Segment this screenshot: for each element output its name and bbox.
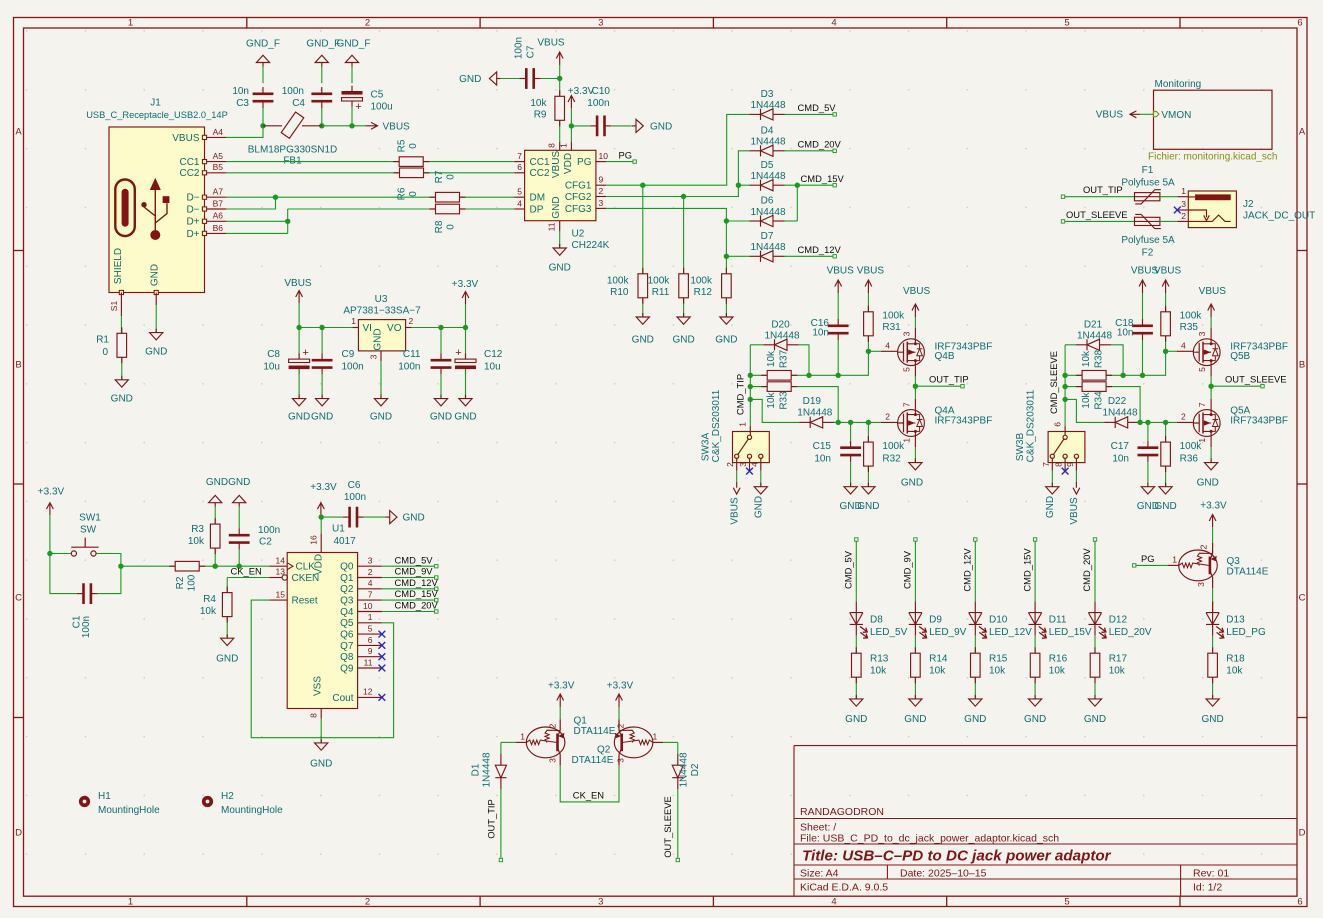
svg-text:6: 6 [517, 162, 522, 172]
svg-text:VBUS: VBUS [284, 278, 312, 289]
svg-text:A: A [1299, 127, 1306, 138]
svg-text:R38: R38 [1094, 349, 1105, 368]
svg-text:VBUS: VBUS [537, 38, 565, 49]
svg-text:R18: R18 [1226, 654, 1245, 665]
svg-text:PG: PG [619, 150, 633, 161]
svg-text:Q3: Q3 [340, 596, 354, 607]
svg-text:R1: R1 [96, 335, 109, 346]
svg-text:Cout: Cout [332, 693, 353, 704]
svg-text:CMD_15V: CMD_15V [1021, 548, 1032, 592]
svg-text:Q4: Q4 [340, 607, 354, 618]
svg-text:6: 6 [1053, 422, 1063, 427]
svg-text:D5: D5 [761, 160, 774, 171]
svg-text:CMD_SLEEVE: CMD_SLEEVE [1048, 351, 1059, 414]
svg-text:A4: A4 [213, 127, 224, 137]
svg-text:VBUS: VBUS [730, 497, 741, 525]
svg-text:1: 1 [1172, 555, 1177, 565]
svg-text:1: 1 [559, 143, 569, 148]
svg-text:8: 8 [308, 713, 318, 718]
svg-text:GND: GND [551, 196, 562, 218]
svg-text:+3.3V: +3.3V [568, 86, 595, 97]
svg-text:1N4448: 1N4448 [1077, 331, 1112, 342]
svg-text:GND: GND [1045, 496, 1056, 518]
svg-text:GND: GND [901, 478, 923, 489]
svg-text:C8: C8 [267, 349, 280, 360]
svg-text:5: 5 [1064, 18, 1069, 29]
svg-text:VDD: VDD [314, 554, 325, 575]
svg-text:D−: D− [186, 204, 199, 215]
svg-text:B5: B5 [213, 162, 224, 172]
svg-text:100k: 100k [1180, 311, 1203, 322]
svg-text:R10: R10 [610, 287, 629, 298]
svg-text:VMON: VMON [1161, 110, 1191, 121]
svg-text:Q7: Q7 [340, 641, 354, 652]
svg-text:LED_5V: LED_5V [870, 627, 908, 638]
svg-text:16: 16 [308, 535, 318, 545]
svg-text:7: 7 [902, 402, 912, 407]
svg-text:Q2: Q2 [597, 745, 611, 756]
svg-text:CMD_20V: CMD_20V [395, 600, 439, 611]
svg-text:2: 2 [725, 462, 735, 467]
svg-text:D+: D+ [186, 217, 199, 228]
svg-text:VO: VO [387, 323, 402, 334]
svg-text:DM: DM [530, 193, 546, 204]
svg-text:2: 2 [365, 896, 370, 907]
svg-text:0: 0 [446, 224, 457, 230]
svg-text:15: 15 [276, 589, 286, 599]
svg-text:B: B [15, 360, 21, 371]
svg-text:3: 3 [738, 462, 748, 467]
svg-text:AP7381−33SA−7: AP7381−33SA−7 [343, 306, 421, 317]
svg-text:LED_15V: LED_15V [1049, 627, 1092, 638]
svg-text:D4: D4 [761, 126, 774, 137]
svg-text:VDD: VDD [563, 153, 574, 174]
svg-text:4017: 4017 [334, 536, 357, 547]
svg-text:Monitoring: Monitoring [1155, 79, 1202, 90]
svg-text:+3.3V: +3.3V [1200, 501, 1227, 512]
svg-text:F2: F2 [1142, 248, 1154, 259]
svg-text:Reset: Reset [292, 596, 318, 607]
svg-text:GND: GND [650, 121, 672, 132]
svg-text:JACK_DC_OUT: JACK_DC_OUT [1243, 211, 1315, 222]
svg-text:OUT_SLEEVE: OUT_SLEEVE [1066, 209, 1127, 220]
svg-text:GND_F: GND_F [337, 39, 371, 50]
svg-text:1: 1 [1197, 438, 1207, 443]
svg-text:Q5B: Q5B [1230, 351, 1250, 362]
svg-text:FB1: FB1 [283, 156, 302, 167]
svg-text:A7: A7 [213, 187, 224, 197]
svg-text:R12: R12 [694, 287, 713, 298]
svg-text:10k: 10k [870, 666, 887, 677]
svg-text:GND: GND [1084, 714, 1106, 725]
svg-text:U2: U2 [572, 229, 585, 240]
svg-text:3: 3 [902, 331, 912, 336]
svg-text:GND: GND [672, 335, 694, 346]
svg-text:1: 1 [738, 422, 748, 427]
svg-text:VSS: VSS [313, 676, 324, 696]
svg-text:GND: GND [1154, 501, 1176, 512]
svg-text:SW1: SW1 [79, 513, 101, 524]
svg-text:1N4448: 1N4448 [679, 752, 690, 787]
svg-text:10k: 10k [200, 606, 217, 617]
svg-text:1: 1 [1181, 186, 1186, 196]
svg-text:GND: GND [632, 335, 654, 346]
svg-text:VI: VI [363, 323, 372, 334]
svg-text:GND: GND [1024, 714, 1046, 725]
svg-text:10: 10 [363, 601, 373, 611]
svg-text:0: 0 [408, 143, 419, 149]
svg-text:GND: GND [370, 412, 392, 423]
svg-text:0: 0 [102, 347, 108, 358]
svg-text:6: 6 [368, 635, 373, 645]
svg-text:VBUS: VBUS [1199, 286, 1227, 297]
svg-text:File: USB_C_PD_to_dc_jack_powe: File: USB_C_PD_to_dc_jack_power_adaptor.… [800, 833, 1059, 845]
svg-text:CFG1: CFG1 [565, 181, 592, 192]
svg-text:R5: R5 [396, 139, 407, 152]
svg-text:PG: PG [1141, 553, 1155, 564]
svg-text:10n: 10n [1117, 328, 1134, 339]
svg-text:R35: R35 [1180, 322, 1199, 333]
svg-text:B: B [1299, 360, 1305, 371]
svg-text:Polyfuse 5A: Polyfuse 5A [1121, 177, 1175, 188]
svg-text:4: 4 [749, 462, 759, 467]
svg-text:B6: B6 [213, 223, 224, 233]
svg-text:R3: R3 [191, 524, 204, 535]
svg-text:6: 6 [1297, 18, 1302, 29]
svg-text:R37: R37 [778, 349, 789, 368]
svg-text:1N4448: 1N4448 [482, 752, 493, 787]
svg-text:10n: 10n [232, 86, 249, 97]
svg-text:GND: GND [373, 328, 384, 350]
svg-text:R31: R31 [882, 322, 901, 333]
svg-text:GND: GND [549, 263, 571, 274]
svg-text:R16: R16 [1049, 654, 1068, 665]
svg-text:3: 3 [599, 198, 604, 208]
svg-text:OUT_SLEEVE: OUT_SLEEVE [1225, 374, 1286, 385]
svg-text:Title: USB–C–PD to DC jack pow: Title: USB–C–PD to DC jack power adaptor [802, 848, 1112, 865]
svg-text:CMD_15V: CMD_15V [801, 173, 845, 184]
svg-text:VBUS: VBUS [172, 133, 200, 144]
svg-text:4: 4 [831, 896, 836, 907]
svg-text:+3.3V: +3.3V [607, 681, 634, 692]
svg-text:OUT_TIP: OUT_TIP [929, 374, 969, 385]
svg-text:C4: C4 [292, 98, 305, 109]
svg-text:CMD_9V: CMD_9V [395, 566, 434, 577]
svg-text:IRF7343PBF: IRF7343PBF [935, 416, 993, 427]
svg-text:H2: H2 [221, 791, 234, 802]
svg-text:C12: C12 [484, 349, 503, 360]
svg-text:Rev: 01: Rev: 01 [1193, 868, 1229, 880]
svg-text:100n: 100n [513, 37, 524, 59]
svg-text:3: 3 [1181, 199, 1186, 209]
svg-text:CFG2: CFG2 [565, 192, 592, 203]
svg-text:9: 9 [599, 175, 604, 185]
svg-text:GND: GND [430, 412, 452, 423]
svg-text:GND: GND [228, 477, 250, 488]
svg-text:10k: 10k [1049, 666, 1066, 677]
svg-text:BLM18PG330SN1D: BLM18PG330SN1D [248, 145, 338, 156]
svg-text:D2: D2 [690, 763, 701, 776]
svg-text:LED_20V: LED_20V [1109, 627, 1152, 638]
svg-text:R2: R2 [175, 576, 186, 589]
svg-text:R32: R32 [882, 454, 901, 465]
svg-text:D: D [1299, 828, 1306, 839]
svg-text:5: 5 [902, 367, 912, 372]
svg-text:3: 3 [616, 758, 626, 763]
svg-text:100n: 100n [344, 492, 366, 503]
svg-text:C&K_DS203011: C&K_DS203011 [711, 389, 722, 462]
svg-text:C9: C9 [342, 349, 355, 360]
svg-text:Q3: Q3 [1227, 556, 1241, 567]
svg-text:Polyfuse 5A: Polyfuse 5A [1121, 235, 1175, 246]
svg-text:D8: D8 [870, 615, 883, 626]
svg-text:CC1: CC1 [530, 157, 550, 168]
svg-text:Q4B: Q4B [935, 351, 955, 362]
svg-text:CMD_12V: CMD_12V [798, 244, 842, 255]
svg-text:CK_EN: CK_EN [573, 789, 604, 800]
svg-text:2: 2 [616, 723, 626, 728]
svg-text:4: 4 [517, 198, 522, 208]
svg-text:SW: SW [80, 525, 97, 536]
svg-text:C7: C7 [526, 45, 537, 58]
svg-text:0: 0 [408, 191, 419, 197]
svg-text:5: 5 [517, 187, 522, 197]
svg-text:D−: D− [186, 193, 199, 204]
svg-text:LED_9V: LED_9V [929, 627, 967, 638]
svg-text:GND: GND [150, 264, 161, 286]
svg-text:+3.3V: +3.3V [452, 279, 479, 290]
svg-text:PG: PG [577, 157, 592, 168]
svg-text:IRF7343PBF: IRF7343PBF [1230, 416, 1288, 427]
svg-text:OUT_TIP: OUT_TIP [1083, 184, 1123, 195]
svg-text:2: 2 [365, 18, 370, 29]
svg-text:SW3B: SW3B [1015, 433, 1026, 462]
svg-text:100k: 100k [690, 276, 713, 287]
svg-text:H1: H1 [98, 791, 111, 802]
svg-text:GND: GND [111, 394, 133, 405]
svg-text:3: 3 [548, 758, 558, 763]
svg-text:10k: 10k [989, 666, 1006, 677]
svg-text:0: 0 [446, 174, 457, 180]
svg-text:CMD_TIP: CMD_TIP [735, 374, 746, 415]
svg-text:2: 2 [1181, 211, 1186, 221]
svg-text:9: 9 [368, 646, 373, 656]
svg-text:100n: 100n [282, 86, 304, 97]
svg-text:Q5: Q5 [340, 618, 354, 629]
svg-text:F1: F1 [1142, 165, 1154, 176]
svg-text:VBUS: VBUS [1069, 497, 1080, 525]
svg-text:Q1: Q1 [340, 573, 354, 584]
svg-text:100n: 100n [587, 98, 609, 109]
svg-text:DP: DP [530, 204, 544, 215]
svg-text:VBUS: VBUS [1154, 266, 1182, 277]
svg-text:D1: D1 [471, 763, 482, 776]
svg-text:2: 2 [548, 723, 558, 728]
svg-text:2: 2 [599, 186, 604, 196]
svg-text:GND: GND [1197, 478, 1219, 489]
svg-text:Q6: Q6 [340, 630, 354, 641]
svg-text:D+: D+ [186, 229, 199, 240]
svg-text:B7: B7 [213, 198, 224, 208]
svg-text:8: 8 [1054, 462, 1064, 467]
svg-text:10k: 10k [1081, 350, 1092, 367]
svg-text:CMD_12V: CMD_12V [962, 548, 973, 592]
svg-text:GND: GND [206, 477, 228, 488]
svg-text:D11: D11 [1049, 615, 1067, 626]
svg-text:J1: J1 [150, 98, 161, 109]
svg-text:GND_F: GND_F [246, 39, 280, 50]
svg-text:100n: 100n [398, 362, 420, 373]
svg-text:1: 1 [128, 18, 133, 29]
svg-text:C3: C3 [236, 98, 249, 109]
svg-text:OUT_SLEEVE: OUT_SLEEVE [662, 796, 673, 857]
svg-text:C5: C5 [371, 90, 384, 101]
svg-text:D6: D6 [761, 196, 774, 207]
svg-text:GND: GND [145, 347, 167, 358]
svg-text:1N4448: 1N4448 [750, 207, 785, 218]
svg-text:CC1: CC1 [179, 157, 199, 168]
svg-text:VBUS: VBUS [827, 266, 855, 277]
svg-text:R17: R17 [1109, 654, 1128, 665]
svg-text:CC2: CC2 [179, 168, 199, 179]
svg-text:Q0: Q0 [340, 562, 354, 573]
svg-text:10u: 10u [263, 362, 280, 373]
svg-text:USB_C_Receptacle_USB2.0_14P: USB_C_Receptacle_USB2.0_14P [86, 110, 228, 120]
svg-text:Id: 1/2: Id: 1/2 [1193, 882, 1222, 894]
svg-text:GND: GND [454, 412, 476, 423]
svg-text:RANDAGODRON: RANDAGODRON [800, 806, 884, 818]
svg-text:10n: 10n [812, 328, 829, 339]
svg-text:Fichier: monitoring.kicad_sch: Fichier: monitoring.kicad_sch [1148, 151, 1278, 162]
svg-text:3: 3 [598, 896, 603, 907]
svg-text:3: 3 [368, 556, 373, 566]
svg-text:100n: 100n [342, 362, 364, 373]
svg-text:GND: GND [904, 714, 926, 725]
svg-text:GND: GND [310, 759, 332, 770]
svg-text:J2: J2 [1243, 199, 1254, 210]
svg-text:1N4448: 1N4448 [750, 171, 785, 182]
svg-text:4: 4 [885, 341, 890, 351]
svg-text:C17: C17 [1111, 441, 1130, 452]
svg-text:MountingHole: MountingHole [221, 805, 283, 816]
svg-text:+: + [302, 347, 308, 359]
svg-text:100k: 100k [882, 311, 905, 322]
svg-text:7: 7 [368, 590, 373, 600]
svg-text:5: 5 [1197, 367, 1207, 372]
svg-text:Q1: Q1 [574, 716, 588, 727]
svg-text:9: 9 [1065, 462, 1075, 467]
svg-text:2: 2 [885, 412, 890, 422]
svg-text:4: 4 [831, 18, 836, 29]
svg-text:A: A [15, 127, 22, 138]
svg-text:6: 6 [1297, 896, 1302, 907]
svg-text:100k: 100k [607, 276, 630, 287]
svg-text:100: 100 [187, 574, 198, 591]
svg-text:+: + [455, 347, 461, 359]
svg-text:GND: GND [1201, 714, 1223, 725]
svg-text:GND: GND [754, 496, 765, 518]
svg-text:GND: GND [288, 412, 310, 423]
svg-text:2: 2 [1199, 544, 1209, 549]
svg-text:OUT_TIP: OUT_TIP [485, 799, 496, 839]
svg-text:CFG3: CFG3 [565, 204, 592, 215]
svg-text:R9: R9 [534, 110, 547, 121]
svg-text:14: 14 [276, 555, 286, 565]
svg-text:GND: GND [964, 714, 986, 725]
svg-text:100k: 100k [648, 276, 671, 287]
svg-text:VBUS: VBUS [551, 151, 562, 179]
svg-text:10k: 10k [188, 536, 205, 547]
svg-text:C: C [1299, 593, 1306, 604]
svg-text:2: 2 [409, 316, 414, 326]
svg-text:1N4448: 1N4448 [797, 407, 832, 418]
svg-text:D3: D3 [761, 89, 774, 100]
svg-text:1N4448: 1N4448 [750, 137, 785, 148]
svg-text:CLK: CLK [296, 562, 316, 573]
svg-text:Q9: Q9 [340, 663, 354, 674]
svg-text:CH224K: CH224K [572, 240, 610, 251]
svg-text:100n: 100n [81, 616, 92, 638]
svg-text:CMD_15V: CMD_15V [395, 588, 439, 599]
svg-text:2: 2 [1181, 412, 1186, 422]
svg-text:1: 1 [128, 896, 133, 907]
svg-text:GND: GND [845, 714, 867, 725]
svg-text:GND: GND [857, 501, 879, 512]
svg-text:1: 1 [653, 732, 658, 742]
svg-text:D22: D22 [1108, 396, 1127, 407]
svg-text:LED_PG: LED_PG [1226, 627, 1266, 638]
svg-text:D21: D21 [1084, 319, 1103, 330]
svg-text:GND: GND [459, 74, 481, 85]
svg-text:100u: 100u [371, 102, 393, 113]
svg-text:4: 4 [368, 578, 373, 588]
svg-text:1: 1 [902, 438, 912, 443]
svg-text:10u: 10u [484, 362, 501, 373]
svg-text:CMD_5V: CMD_5V [843, 550, 854, 589]
svg-text:R11: R11 [652, 287, 670, 298]
svg-text:R6: R6 [396, 187, 407, 200]
svg-text:+3.3V: +3.3V [548, 681, 575, 692]
svg-text:1N4448: 1N4448 [1102, 407, 1137, 418]
svg-text:C10: C10 [592, 86, 611, 97]
svg-text:C15: C15 [813, 441, 832, 452]
svg-text:5: 5 [368, 624, 373, 634]
svg-text:VBUS: VBUS [1096, 110, 1124, 121]
svg-text:CMD_9V: CMD_9V [902, 550, 913, 589]
svg-text:R7: R7 [434, 170, 445, 183]
svg-text:10k: 10k [929, 666, 946, 677]
svg-text:VBUS: VBUS [857, 266, 885, 277]
svg-text:10k: 10k [530, 98, 547, 109]
svg-text:3: 3 [598, 18, 603, 29]
svg-text:10k: 10k [766, 350, 777, 367]
svg-text:+3.3V: +3.3V [38, 487, 65, 498]
svg-text:D19: D19 [803, 396, 822, 407]
svg-text:R4: R4 [203, 594, 216, 605]
svg-text:100n: 100n [258, 525, 280, 536]
svg-text:GND: GND [403, 513, 425, 524]
svg-text:D20: D20 [771, 319, 790, 330]
svg-text:VBUS: VBUS [383, 121, 411, 132]
svg-text:KiCad E.D.A. 9.0.5: KiCad E.D.A. 9.0.5 [800, 882, 888, 894]
svg-text:GND: GND [311, 412, 333, 423]
svg-text:13: 13 [276, 567, 286, 577]
svg-text:R15: R15 [989, 654, 1008, 665]
svg-text:D: D [15, 828, 22, 839]
svg-text:CC2: CC2 [530, 168, 550, 179]
svg-text:Q8: Q8 [340, 652, 354, 663]
svg-text:C11: C11 [403, 349, 421, 360]
